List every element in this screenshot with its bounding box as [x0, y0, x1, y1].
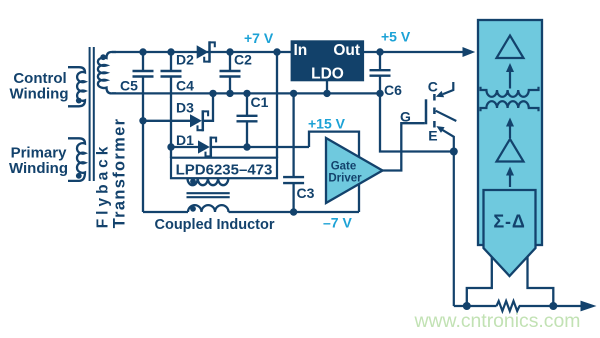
svg-text:–7 V: –7 V: [323, 215, 352, 231]
svg-text:C4: C4: [176, 78, 194, 94]
svg-text:LPD6235–473: LPD6235–473: [176, 162, 273, 179]
capacitor C5: [133, 48, 154, 212]
transformer core: [90, 47, 94, 181]
capacitor C1: [237, 90, 258, 151]
LDO regulator: [291, 40, 365, 82]
svg-text:+15 V: +15 V: [308, 116, 346, 132]
svg-text:Coupled Inductor: Coupled Inductor: [155, 217, 275, 233]
LDO ground pin: [323, 81, 330, 97]
svg-text:+5 V: +5 V: [381, 29, 411, 45]
svg-text:C: C: [428, 79, 438, 95]
wire ground rail: [112, 92, 380, 94]
output arrow: [581, 301, 597, 312]
capacitor C3: [283, 90, 304, 216]
svg-text:D2: D2: [176, 52, 194, 68]
svg-text:G: G: [400, 109, 411, 125]
isolated amplifier block: [478, 20, 542, 245]
primary winding label: [9, 145, 68, 177]
bottom rail: [454, 302, 581, 310]
svg-text:Out: Out: [333, 42, 360, 59]
wire emitter branch: [380, 93, 454, 151]
svg-text:E: E: [428, 127, 437, 143]
svg-text:Flyback: Flyback: [95, 143, 112, 229]
arrow 3: [506, 167, 514, 188]
control winding: [68, 67, 85, 106]
IGBT channel dashes: [433, 94, 436, 128]
svg-text:D1: D1: [176, 132, 194, 148]
svg-text:Transformer: Transformer: [110, 118, 128, 229]
IGBT middle diagonal: [436, 111, 457, 121]
svg-text:C1: C1: [251, 94, 269, 110]
svg-text:In: In: [294, 42, 308, 59]
capacitor C6: [370, 48, 391, 97]
svg-text:C2: C2: [234, 52, 252, 68]
primary winding: [68, 138, 85, 181]
node +7V / wire to LPD box: [273, 48, 280, 158]
amp triangle 2: [497, 139, 524, 162]
IGBT gate bar: [425, 99, 428, 124]
coupled inductor top winding: [188, 178, 229, 185]
sigma-delta output legs: [467, 256, 554, 306]
diode D3: [139, 90, 216, 132]
capacitor C2: [220, 48, 241, 97]
amp triangle 1: [497, 36, 524, 59]
coupled inductor core: [187, 193, 230, 197]
wire +15V supply: [309, 132, 359, 212]
svg-text:LDO: LDO: [311, 66, 344, 83]
svg-text:+7 V: +7 V: [244, 30, 274, 46]
coupled inductor bottom winding: [188, 205, 229, 212]
svg-text:C6: C6: [384, 82, 402, 98]
control winding label: [9, 70, 68, 102]
IGBT collector: [436, 82, 454, 97]
wire -7V rail: [143, 211, 359, 213]
svg-text:C3: C3: [297, 185, 315, 201]
capacitor C4: [161, 48, 182, 158]
wire out rail: [364, 51, 466, 53]
svg-text:Σ-Δ: Σ-Δ: [493, 212, 525, 232]
arrow into block: [463, 47, 476, 57]
svg-text:Driver: Driver: [328, 173, 362, 185]
svg-text:D3: D3: [176, 100, 194, 116]
svg-text:Winding: Winding: [9, 160, 68, 177]
secondary winding: [98, 52, 116, 93]
wire top rail: [112, 51, 291, 53]
svg-text:www.cntronics.com: www.cntronics.com: [414, 310, 581, 332]
LPD6235-473 box: [171, 158, 277, 179]
diode D1: [167, 137, 309, 158]
flyback transformer label: [95, 118, 129, 229]
diode D2: [197, 41, 215, 62]
svg-text:Winding: Winding: [9, 85, 68, 102]
svg-text:Gate: Gate: [331, 161, 357, 173]
wire gate riser: [383, 123, 425, 170]
resistor R: [497, 301, 520, 311]
sigma-delta modulator: [484, 190, 536, 276]
gate driver triangle: [326, 138, 383, 203]
IGBT emitter: [436, 126, 457, 306]
arrow 1: [506, 63, 514, 89]
block transformer: [481, 87, 539, 111]
svg-text:C5: C5: [120, 78, 138, 94]
arrow 2: [506, 118, 514, 139]
